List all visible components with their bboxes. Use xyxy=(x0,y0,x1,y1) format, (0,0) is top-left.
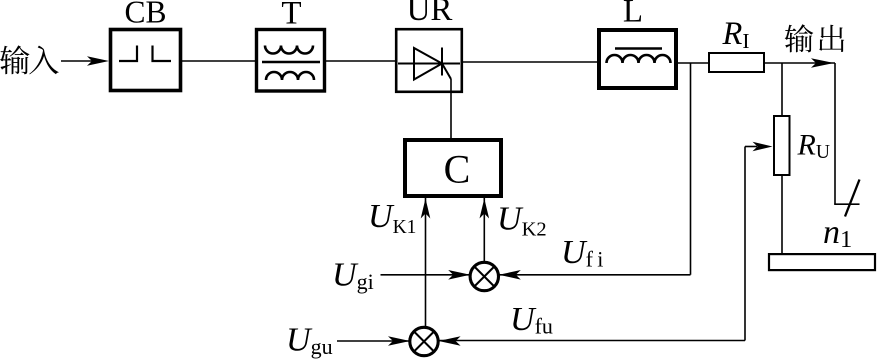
L coil xyxy=(607,55,671,63)
arrowhead UK1 into C xyxy=(421,199,431,219)
UR cathode bar xyxy=(441,48,443,76)
wire node L junction down xyxy=(690,63,692,275)
resistor RI xyxy=(709,53,764,72)
svg-text:UR: UR xyxy=(407,0,453,28)
arrowhead Ugi into mixer M1 xyxy=(448,270,470,280)
mixer M2 (voltage loop comparator) xyxy=(410,327,438,355)
box CB xyxy=(111,30,181,91)
wire output drop xyxy=(834,63,836,204)
wire RI to output corner xyxy=(764,62,835,64)
wire CB to T xyxy=(182,60,255,62)
UR through line xyxy=(398,63,460,65)
wire UK1 from mixer M2 up to C xyxy=(425,198,427,327)
mixer M1 (current loop comparator) xyxy=(470,262,498,290)
wire Ugu line xyxy=(337,340,410,342)
svg-text:T: T xyxy=(281,0,301,32)
wire UK2 from mixer M1 up to C xyxy=(483,198,485,261)
arrowhead Ufi into mixer M1 xyxy=(499,270,521,280)
T secondary winding xyxy=(266,72,314,80)
CB contact left xyxy=(119,46,137,62)
label output 输 xyxy=(785,24,813,52)
arrowhead UK2 into C xyxy=(480,199,490,219)
wire node RI junction down to RU xyxy=(781,63,783,116)
arrowhead Ugu into mixer M2 xyxy=(388,336,410,346)
wire T to UR xyxy=(326,60,395,62)
wire input to CB xyxy=(61,60,104,62)
workpiece bar n1 xyxy=(769,254,875,270)
svg-text:CB: CB xyxy=(124,0,166,29)
T core line xyxy=(262,61,320,64)
box UR xyxy=(396,29,462,92)
L core bar xyxy=(615,47,662,50)
label input 入 xyxy=(29,46,58,75)
box C controller xyxy=(405,140,501,196)
wire UR gate to C xyxy=(450,79,452,138)
box L xyxy=(599,30,676,88)
svg-text:C: C xyxy=(444,147,471,192)
wire RU to workpiece bar xyxy=(781,175,783,254)
arrowhead output xyxy=(811,58,834,68)
arrowhead input xyxy=(87,56,109,66)
wire Ufu feedback xyxy=(439,340,745,342)
UR thyristor triangle xyxy=(414,48,442,80)
resistor RU xyxy=(774,116,790,175)
CB contact right xyxy=(153,46,172,62)
label input 输 xyxy=(0,45,29,74)
UR gate diagonal xyxy=(442,64,451,80)
label output 出 xyxy=(819,25,844,52)
svg-text:L: L xyxy=(623,0,643,29)
arrowhead RU wiper xyxy=(753,142,773,152)
wire electrode foot xyxy=(834,203,859,205)
wire RU wiper drop xyxy=(744,147,746,341)
wire UR to L xyxy=(463,61,597,63)
arrowhead Ufu into mixer M2 xyxy=(439,336,461,346)
T primary winding xyxy=(265,46,313,54)
electrode slash n1 xyxy=(845,180,860,217)
wire Ufi feedback xyxy=(499,274,691,276)
wire Ugi line xyxy=(381,274,471,276)
wire L to RI xyxy=(678,62,708,64)
box T xyxy=(257,30,325,92)
wire RU wiper tap xyxy=(745,146,757,148)
